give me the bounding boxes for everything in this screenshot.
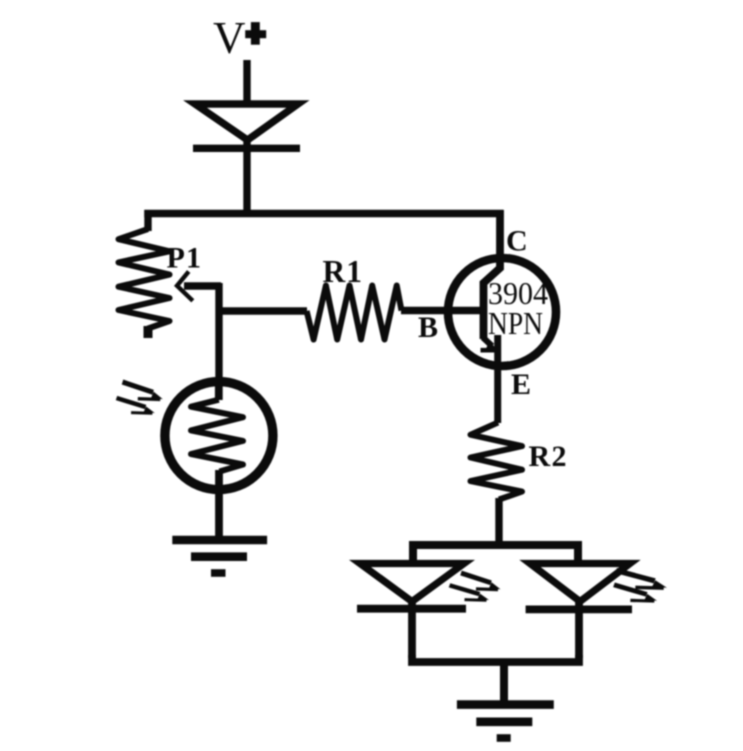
svg-text:B: B (418, 311, 438, 344)
LDR light arrow 1 (123, 382, 163, 399)
LED D2 light arrow 2 (450, 585, 490, 600)
svg-text:V: V (213, 13, 246, 63)
diode D1 (193, 104, 300, 148)
svg-text:C: C (506, 225, 528, 258)
photoresistor LDR circle (165, 382, 273, 490)
wire wiper down to LDR (junction to base) (215, 283, 222, 382)
wire R2 to LED bus (495, 498, 502, 545)
wire V+ rail (144, 210, 503, 217)
wire LED D2 to bottom bus (408, 600, 416, 658)
wire base node horizontal (219, 307, 307, 314)
wire LED D3 to bottom bus (575, 600, 583, 658)
resistor R1 (307, 286, 402, 340)
transistor emitter arrow (481, 338, 498, 351)
svg-text:P1: P1 (167, 242, 202, 275)
wire into LDR top (215, 378, 223, 400)
LED D2 light arrow 1 (461, 573, 501, 590)
LED D3 light arrow 2 (614, 585, 657, 601)
wire emitter lead to R2 (494, 335, 501, 423)
node V+ label (213, 13, 266, 63)
svg-text:R1: R1 (323, 254, 363, 289)
wire V+ to diode D1 (243, 60, 250, 103)
wire R1 to transistor base (401, 307, 484, 314)
resistor R2 (471, 423, 523, 500)
wire base inside circle (444, 307, 484, 314)
transistor Q1 circle (448, 258, 556, 366)
ground (LED side) (457, 705, 554, 738)
ground (LDR side) (172, 540, 267, 573)
svg-text:R2: R2 (529, 440, 567, 473)
LED D3 light arrow 1 (616, 571, 667, 589)
wire rail to P1 (144, 210, 151, 231)
LED D2 triangle (357, 564, 466, 609)
wire LED bottom bus (412, 655, 579, 662)
wiper arrow of P1 (177, 272, 221, 301)
LED D3 triangle (526, 564, 632, 610)
wire LED top bus (413, 545, 578, 564)
wire LDR bottom to ground 1 (215, 470, 223, 539)
wire rail to collector C (484, 210, 501, 339)
LDR internal resistor zigzag (191, 400, 243, 472)
svg-text:NPN: NPN (488, 305, 543, 341)
svg-text:E: E (511, 368, 531, 401)
LDR light arrow 2 (117, 398, 155, 413)
wire bus to ground 2 (500, 662, 508, 703)
wire diode to V+ rail (243, 140, 250, 217)
potentiometer P1 (119, 229, 170, 338)
